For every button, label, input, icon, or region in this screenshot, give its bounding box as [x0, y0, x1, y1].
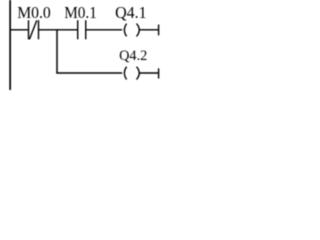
svg-text:M0.1: M0.1 — [64, 3, 97, 22]
left power rail — [9, 0, 11, 90]
svg-text:Q4.1: Q4.1 — [115, 3, 147, 22]
wire rung 2 branch to coil Q4.2 — [56, 72, 122, 74]
wire contact M0.0 to contact M0.1 — [39, 29, 78, 31]
right rail stub rung 2 — [158, 68, 160, 78]
contact M0.1 (normally open) — [78, 20, 86, 39]
wire coil Q4.2 to right rail — [140, 72, 159, 74]
contact M0.0 (normally closed) — [29, 20, 39, 39]
wire contact M0.1 to coil Q4.1 — [86, 29, 122, 31]
svg-text:M0.0: M0.0 — [17, 3, 51, 22]
wire rail to contact M0.0 — [10, 29, 29, 31]
coil Q4.2 — [124, 67, 139, 80]
branch junction wire down to rung 2 — [56, 29, 58, 73]
svg-text:Q4.2: Q4.2 — [119, 48, 147, 64]
right rail stub rung 1 — [158, 25, 160, 36]
coil Q4.1 — [124, 24, 139, 37]
wire coil Q4.1 to right rail — [140, 29, 159, 31]
